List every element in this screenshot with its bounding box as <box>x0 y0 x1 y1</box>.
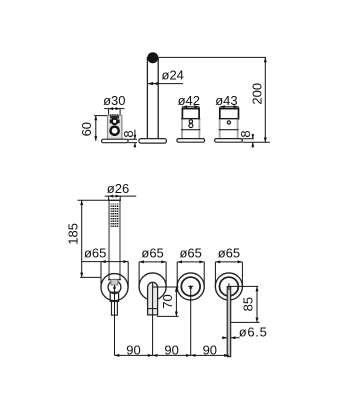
escutcheon circle 1 <box>101 274 128 301</box>
dimension line ø65 (1) <box>82 262 129 288</box>
holder cup inner circle 1 <box>108 281 121 294</box>
escutcheon circle 2 <box>139 273 166 300</box>
holder knurled ring <box>110 114 119 118</box>
hose nut <box>110 292 118 301</box>
wand spray face dots <box>111 204 119 227</box>
svg-text:ø6.5: ø6.5 <box>239 324 268 339</box>
valve 2 body <box>219 119 239 139</box>
centre arrow circle 3 <box>189 285 192 289</box>
leader ø24 with double arrows <box>148 83 183 85</box>
valve 2 base plate <box>215 139 243 143</box>
svg-text:ø65: ø65 <box>179 246 201 261</box>
centre cross circle 4 <box>229 283 258 290</box>
dimension 185 <box>78 200 109 277</box>
valve 2 cartridge <box>220 109 239 119</box>
svg-text:85: 85 <box>241 297 256 311</box>
dimension 85 <box>231 286 260 322</box>
dimension 60 (vertical) <box>94 116 108 141</box>
holder base plate <box>102 139 129 143</box>
valve 2 indicator (o mark) <box>227 121 230 124</box>
svg-text:90: 90 <box>126 342 140 357</box>
valve 1 indicator (8 mark) <box>189 120 192 123</box>
valve 1 base plate <box>177 139 205 143</box>
holder upper ring with side tabs <box>110 120 112 124</box>
dimension line ø30 <box>104 108 124 110</box>
holder body <box>108 115 122 139</box>
svg-text:60: 60 <box>79 122 94 136</box>
svg-text:ø65: ø65 <box>84 246 106 261</box>
spout outlet (black top) <box>147 52 158 63</box>
inner ring circle 3 <box>181 277 200 296</box>
svg-text:8: 8 <box>238 130 253 137</box>
svg-text:90: 90 <box>164 342 178 357</box>
spout tube (front) <box>148 282 158 315</box>
extension ticks ø30 <box>109 109 121 115</box>
wand neck <box>111 280 118 285</box>
dimension line ø26 <box>105 195 137 197</box>
spout column <box>147 58 158 139</box>
dimension 70 <box>153 287 179 316</box>
dimension line ø65 (3) <box>177 262 204 287</box>
dimension 200 (vertical right) <box>159 57 266 142</box>
dimension chain 90/90/90 <box>115 354 230 356</box>
hose connector tube <box>112 301 118 315</box>
valve 1 cartridge <box>182 109 199 119</box>
holder lower ring <box>111 127 119 135</box>
centre arrow circle 1 <box>114 286 116 355</box>
svg-text:ø24: ø24 <box>162 67 184 82</box>
svg-text:ø42: ø42 <box>178 93 200 108</box>
dimension line ø65 (4) <box>215 262 242 287</box>
svg-text:ø65: ø65 <box>218 246 240 261</box>
leader ø6.5 <box>222 337 240 339</box>
svg-text:90: 90 <box>203 342 217 357</box>
svg-text:185: 185 <box>66 223 81 245</box>
dimension 8 (holder base) <box>128 130 137 148</box>
escutcheon circle 3 <box>177 273 204 300</box>
valve 1 body <box>181 119 200 139</box>
supply tube ø6.5 <box>227 287 231 357</box>
svg-text:ø65: ø65 <box>141 246 163 261</box>
svg-text:8: 8 <box>121 130 136 137</box>
inner ring circle 4 <box>220 277 239 296</box>
dimension line ø42 <box>182 106 199 108</box>
dimension line ø65 (2) <box>139 262 166 287</box>
centre line circle 3 <box>188 286 193 355</box>
svg-text:ø26: ø26 <box>107 181 129 196</box>
escutcheon circle 4 <box>215 273 242 300</box>
svg-text:ø30: ø30 <box>103 93 125 108</box>
dimension line ø43 <box>220 106 238 108</box>
svg-text:70: 70 <box>160 294 175 308</box>
svg-text:200: 200 <box>249 83 264 105</box>
spout base plate <box>139 139 167 144</box>
centre line circle 2 <box>152 283 154 356</box>
dimension 8 (valve 2 base) <box>243 134 270 148</box>
hand shower wand <box>108 200 121 280</box>
